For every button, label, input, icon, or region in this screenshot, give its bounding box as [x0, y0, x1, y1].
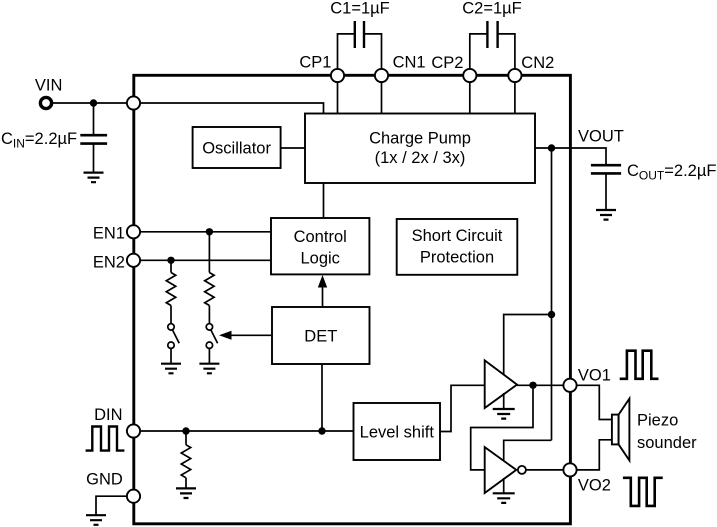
- block Oscillator: [193, 127, 281, 168]
- ground (COUT): [596, 210, 616, 220]
- svg-text:GND: GND: [86, 471, 123, 489]
- pin CP2: [463, 69, 476, 82]
- block Control Logic: [271, 218, 369, 274]
- pin EN1: [127, 225, 140, 238]
- ground (SW1): [199, 364, 219, 374]
- wire R3 to ground: [185, 478, 187, 489]
- wire U1 ground stub: [503, 393, 505, 409]
- wire VIN terminal to IC edge: [46, 102, 134, 104]
- wire CP1 pin to Charge Pump: [337, 81, 339, 114]
- capacitor CIN plates: [80, 135, 107, 143]
- wire DET to DIN line: [321, 364, 323, 431]
- wire EN2 to Control Logic: [134, 259, 272, 261]
- ground (GND pin): [86, 515, 106, 525]
- op-amp U2 (inverting buffer): [485, 447, 517, 493]
- svg-text:C2=1µF: C2=1µF: [462, 0, 522, 18]
- wire R1 to switch SW1: [208, 306, 210, 324]
- switch SW1: [206, 324, 212, 330]
- wire DIN to Level shift: [134, 430, 354, 432]
- block DET: [272, 307, 370, 364]
- svg-text:VO1: VO1: [578, 367, 611, 385]
- svg-text:VO2: VO2: [578, 477, 611, 495]
- block Level shift: [354, 403, 441, 460]
- wire VO1 to piezo sounder: [570, 385, 612, 419]
- ground (U2): [493, 493, 515, 503]
- pin EN2: [127, 254, 140, 267]
- svg-text:Protection: Protection: [420, 249, 494, 267]
- wire VOUT internal supply rail: [551, 148, 553, 440]
- capacitor C1 plates: [355, 21, 364, 48]
- capacitor CIN wires: [93, 103, 95, 173]
- pin CN1: [375, 69, 388, 82]
- block Short Circuit Protection: [397, 219, 518, 275]
- svg-text:EN1: EN1: [93, 225, 125, 243]
- svg-text:CP1: CP1: [299, 54, 331, 72]
- wire supply branch to buffer U2: [504, 440, 552, 460]
- capacitor C1 wires: [338, 34, 382, 70]
- waveform VO2: [623, 478, 663, 506]
- pin GND: [127, 490, 140, 503]
- switch SW2: [168, 324, 174, 330]
- wire EN2 pulldown branch: [170, 260, 172, 272]
- wire CN2 pin to Charge Pump: [514, 81, 516, 114]
- svg-text:Oscillator: Oscillator: [202, 140, 271, 158]
- svg-text:Control: Control: [294, 228, 347, 246]
- ground (R3): [176, 488, 196, 498]
- node VIN-CIN junction: [90, 99, 97, 106]
- wire DIN pulldown branch: [185, 431, 187, 445]
- svg-text:sounder: sounder: [637, 434, 697, 452]
- capacitor COUT lower wire: [605, 173, 607, 210]
- node VO1 junction: [529, 382, 536, 389]
- svg-text:DIN: DIN: [94, 406, 122, 424]
- svg-text:CN2: CN2: [521, 54, 554, 72]
- wire supply branch to buffer U1: [504, 315, 552, 375]
- wire CN1 pin to Charge Pump: [381, 81, 383, 114]
- pin CP1: [331, 69, 344, 82]
- wire U2 ground stub: [503, 478, 505, 493]
- resistor R2 (EN2 pulldown): [166, 273, 175, 306]
- svg-text:DET: DET: [304, 328, 337, 346]
- resistor R1 (EN1 pulldown): [205, 273, 214, 306]
- wire Charge Pump to Control Logic: [323, 183, 325, 218]
- wire VIN feed to Charge Pump: [134, 103, 324, 114]
- wire EN1 to Control Logic: [134, 231, 272, 233]
- waveform DIN: [86, 427, 125, 451]
- waveform VO1: [620, 351, 659, 379]
- wire VO2 to piezo sounder: [570, 440, 612, 470]
- wire VO1 to U2 input: [471, 385, 533, 470]
- resistor R3 (DIN pulldown): [181, 445, 190, 478]
- capacitor C2 plates: [487, 21, 497, 48]
- svg-text:Level shift: Level shift: [360, 424, 435, 442]
- node DIN-R3 junction: [182, 427, 189, 434]
- wire SW2 to ground: [170, 348, 172, 363]
- node supply-U1 junction: [548, 311, 555, 318]
- pin VO2: [563, 463, 576, 476]
- node EN1 junction: [206, 228, 213, 235]
- svg-text:Charge Pump: Charge Pump: [369, 130, 471, 148]
- node EN2 junction: [167, 257, 174, 264]
- svg-text:(1x / 2x / 3x): (1x / 2x / 3x): [375, 149, 466, 167]
- svg-text:Short Circuit: Short Circuit: [412, 227, 503, 245]
- inverter bubble U2: [518, 466, 526, 474]
- pin VIN (IC edge): [127, 96, 140, 109]
- wire VOUT net: Charge Pump to COUT: [535, 148, 606, 165]
- op-amp U1 (buffer): [485, 360, 517, 408]
- block Charge Pump: [305, 114, 535, 184]
- pin DIN: [127, 424, 140, 437]
- wire R2 to switch SW2: [170, 306, 172, 324]
- wire SW1 to ground: [208, 348, 210, 363]
- wire DET to SW1 arrow: [229, 334, 271, 336]
- wire Level shift to buffer U1 input: [440, 385, 485, 431]
- node DIN-DET junction: [318, 427, 325, 434]
- capacitor C2 wires: [470, 34, 515, 70]
- piezo sounder speaker symbol: [612, 415, 619, 445]
- svg-text:Piezo: Piezo: [637, 412, 678, 430]
- wire U1 output to VO1: [517, 384, 570, 386]
- ground (CIN): [84, 173, 104, 183]
- svg-text:CN1: CN1: [393, 54, 426, 72]
- ground (U1): [493, 409, 515, 419]
- svg-text:EN2: EN2: [93, 254, 125, 272]
- IC outline box: [134, 75, 571, 524]
- svg-text:C1=1µF: C1=1µF: [330, 0, 390, 18]
- capacitor COUT plates: [591, 165, 621, 173]
- wire Oscillator to Charge Pump: [281, 147, 306, 149]
- wire GND pin to ground: [96, 496, 134, 515]
- svg-text:CIN=2.2µF: CIN=2.2µF: [1, 130, 77, 151]
- wire DET to Control Logic arrow: [322, 286, 324, 307]
- svg-text:VIN: VIN: [35, 77, 63, 95]
- pin CN2: [508, 69, 521, 82]
- svg-text:Logic: Logic: [300, 250, 339, 268]
- wire EN1 pulldown branch: [208, 232, 210, 273]
- svg-text:CP2: CP2: [431, 54, 463, 72]
- svg-text:VOUT: VOUT: [578, 128, 624, 146]
- wire U2 output to VO2: [526, 469, 570, 471]
- ground (SW2): [161, 364, 181, 374]
- pin VIN terminal: [40, 97, 51, 108]
- node VOUT junction: [548, 144, 555, 151]
- pin VO1: [563, 379, 576, 392]
- wire CP2 pin to Charge Pump: [469, 81, 471, 114]
